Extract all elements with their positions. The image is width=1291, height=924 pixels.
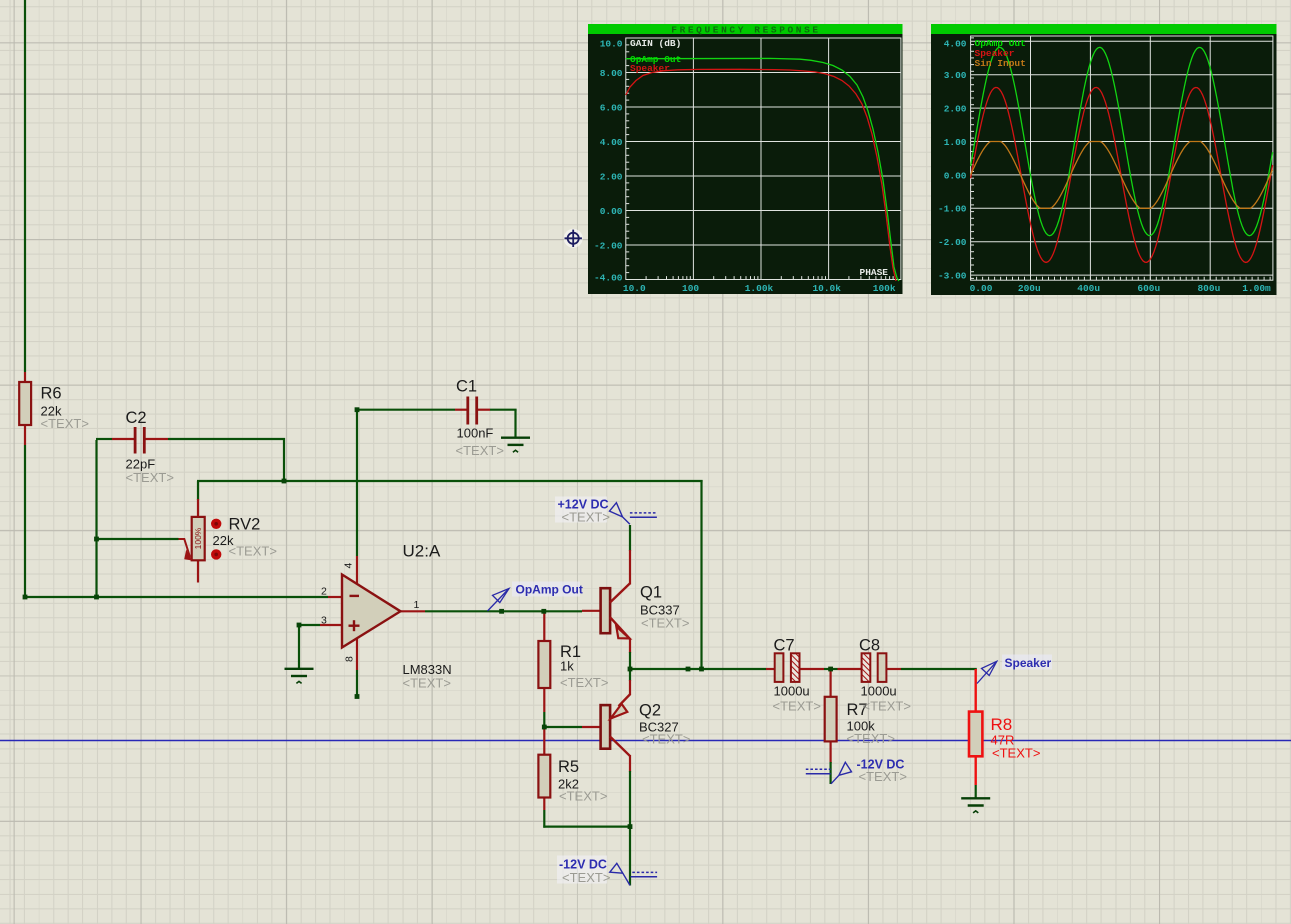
svg-text:<TEXT>: <TEXT> [229,544,277,559]
svg-text:400u: 400u [1077,283,1100,294]
svg-text:-2.00: -2.00 [938,237,967,248]
svg-text:C1: C1 [456,378,477,396]
svg-text:<TEXT>: <TEXT> [641,616,689,631]
svg-text:Speaker: Speaker [630,63,670,74]
wire C2 right lead green [168,438,285,440]
svg-text:2.00: 2.00 [944,104,967,115]
wire C2 right vertical down to feedback net [283,438,285,482]
RV2 top pin dot [211,519,221,529]
wire feedback vertical to output node [700,480,702,670]
wire op-amp pin 8 lower [356,670,358,697]
wire op-amp pin 3 net [298,624,320,626]
svg-text:<TEXT>: <TEXT> [562,870,610,885]
svg-text:1.00k: 1.00k [745,283,774,294]
svg-text:U2:A: U2:A [403,542,441,561]
svg-text:200u: 200u [1018,283,1041,294]
capacitor C7 (electrolytic) [775,653,800,682]
svg-text:8.00: 8.00 [600,68,623,79]
svg-text:RV2: RV2 [229,516,261,534]
svg-text:8: 8 [344,656,356,662]
svg-text:R5: R5 [558,758,579,776]
svg-text:100nF: 100nF [457,426,494,441]
svg-text:<TEXT>: <TEXT> [41,416,89,431]
svg-text:1: 1 [414,599,420,611]
pin op-amp pin 2 stub [328,596,342,598]
capacitor C2 plates [135,427,144,454]
svg-text:6.00: 6.00 [600,102,623,113]
svg-text:R6: R6 [41,385,62,403]
OpAmp Out output terminal [488,582,581,612]
frequency response red curve Speaker [626,69,896,281]
svg-text:3.00: 3.00 [944,70,967,81]
svg-text:<TEXT>: <TEXT> [456,443,504,458]
pin Q2 emitter vertical [629,680,631,695]
svg-text:<TEXT>: <TEXT> [562,510,610,525]
frequency response green curve OpAmp Out [626,58,899,281]
wire +12V terminal to Q1 collector [629,525,631,551]
wire C1 node down to op-amp pin 4 [356,410,358,556]
svg-text:<TEXT>: <TEXT> [859,769,907,784]
svg-text:<TEXT>: <TEXT> [403,676,451,691]
wire C7 to middle node [824,668,832,670]
pin RV2 top lead [197,499,199,518]
wire Q1 emitter to output node [629,652,631,670]
svg-text:OpAmp Out: OpAmp Out [516,583,583,597]
pin op-amp output pin 1 [401,610,426,612]
ground at op-amp pin 3 [285,669,314,684]
pin C8 right lead [886,668,901,670]
node junction pin3/ground [297,623,302,628]
capacitor C1 plates [468,397,477,425]
svg-text:Speaker: Speaker [1005,656,1052,670]
svg-text:4.00: 4.00 [944,38,967,49]
ground at R8 [961,798,990,813]
op-amp U2:A triangle [342,575,401,648]
svg-text:1.00: 1.00 [944,137,967,148]
pin C7 left lead [766,668,775,670]
resistor R6 [19,382,31,425]
pin C8 left lead [838,668,863,670]
svg-text:GAIN (dB): GAIN (dB) [630,38,681,49]
pin op-amp pin 4 [356,556,358,586]
pin Q2 collector vertical [629,755,631,772]
svg-text:2: 2 [321,586,327,598]
node junction output segment [686,667,691,672]
-12V DC power terminal (at R7) [806,762,852,784]
ground at C1 [501,438,530,453]
pin op-amp pin 3 stub [320,624,342,626]
wire wiper horizontal to RV2 [96,538,179,540]
-12V DC power terminal (bottom) [557,856,657,886]
svg-text:-1.00: -1.00 [938,204,967,215]
svg-text:0.00: 0.00 [600,206,623,217]
pin R6 bottom lead [24,425,26,445]
transient plot axis ticks [971,38,1271,280]
transient plot grid [971,36,1273,280]
wire R8 bottom to ground [975,785,977,798]
pin R7 bottom lead [829,741,831,763]
pin C2 right lead [146,438,169,440]
frequency plot axis ticks [626,38,893,280]
pin C1 left lead [455,409,467,411]
frequency plot grid [626,38,901,280]
svg-text:FREQUENCY RESPONSE: FREQUENCY RESPONSE [671,25,820,36]
svg-text:800u: 800u [1197,283,1220,294]
svg-text:-3.00: -3.00 [938,271,967,282]
svg-text:1k: 1k [560,659,574,674]
wire C1 right lead green [490,409,517,411]
pin R7 top lead [829,669,831,697]
svg-text:<TEXT>: <TEXT> [773,699,821,714]
pin R8 bottom lead (selected) [975,756,977,786]
transient orange trace Sin Input [971,142,1273,209]
svg-text:<TEXT>: <TEXT> [642,732,690,747]
svg-text:-2.00: -2.00 [594,240,623,251]
pin R6 top lead [24,372,26,382]
pin op-amp pin 8 [356,636,358,670]
svg-text:C2: C2 [126,409,147,427]
svg-text:<TEXT>: <TEXT> [126,470,174,485]
wire negative rail down to -12V terminal [629,827,631,886]
wire R5 bottom corner [543,810,545,828]
svg-text:10.0: 10.0 [600,38,623,49]
wire middle node to C8 [830,668,838,670]
wire RV2 top corner [197,481,199,500]
wire pin 3 to ground [298,625,300,669]
RV2 bottom pin dot [211,549,221,559]
potentiometer RV2 [179,517,205,561]
svg-text:C8: C8 [859,637,880,655]
transistor Q2 BC327 [601,694,631,756]
wire output node to C7 [630,668,766,670]
wire C8 to speaker node [901,668,977,670]
wire feedback net horizontal [197,480,703,482]
transient analysis graph panel [931,24,1277,295]
node junction C7/C8/R7 [828,667,833,672]
pin C7 right lead [799,668,824,670]
wire input net vertical from top to R6 [24,0,26,372]
pin RV2 bottom lead [197,560,199,583]
svg-text:R8: R8 [991,715,1013,734]
pin R8 top lead (selected) [975,669,977,713]
node junction input/inverting [23,595,28,600]
svg-text:100: 100 [682,283,699,294]
svg-text:Sin Input: Sin Input [975,58,1026,69]
resistor R7 [825,697,837,742]
svg-text:10.0: 10.0 [623,283,646,294]
svg-text:2.00: 2.00 [600,171,623,182]
resistor R8 (selected) [969,712,982,757]
svg-text:<TEXT>: <TEXT> [863,699,911,714]
node junction wiper/C2 [94,537,99,542]
node junction OpAmp Out terminal [499,609,504,614]
svg-text:-4.00: -4.00 [594,273,623,284]
pin C2 left lead [112,438,134,440]
transient plot x-axis labels [970,283,1271,294]
node junction R1/output [541,609,546,614]
wire C1 left lead green [357,409,455,411]
editor cursor crosshair [564,229,583,248]
svg-text:0.00: 0.00 [970,283,993,294]
wire R6 bottom to inverting input net [24,445,26,598]
svg-text:<TEXT>: <TEXT> [559,789,607,804]
+12V DC power terminal [555,497,657,525]
frequency plot x-axis labels [623,283,896,294]
svg-text:100k: 100k [873,283,896,294]
wire Q2 collector to negative rail [629,771,631,828]
wire C1 right down to ground [514,410,516,438]
svg-text:Q2: Q2 [639,702,661,720]
pin R5 bottom lead [543,798,545,811]
resistor R5 [538,755,550,798]
pin R1 bottom lead [543,688,545,712]
svg-text:Q1: Q1 [640,584,662,602]
wire C2 left / wiper vertical [95,440,97,598]
pin R5 top lead [543,727,545,755]
svg-text:C7: C7 [774,637,795,655]
wire op-amp output to Q1 base [425,610,582,612]
node junction feedback/output [699,667,704,672]
wire inverting input net horizontal [24,596,328,598]
svg-text:1000u: 1000u [774,684,810,699]
svg-text:100%: 100% [193,527,203,549]
wire R1 bottom to Q2 base node [543,712,545,728]
wire negative rail horizontal [543,825,631,827]
node junction C1/pin4 [355,407,360,412]
wire Q2 base node horizontal [543,726,582,728]
transient red trace Speaker [971,87,1273,262]
sheet border blue line [0,740,1291,742]
wire R7 bottom to -12V terminal [829,762,831,784]
node junction negative rail [628,824,633,829]
transistor Q1 BC337 [601,583,631,639]
wire output node to Q2 emitter [629,669,631,681]
svg-text:<TEXT>: <TEXT> [560,675,608,690]
node junction inverting net [94,595,99,600]
node junction Q2 base [542,725,547,730]
frequency plot y-axis labels [594,38,623,283]
svg-text:0.00: 0.00 [944,170,967,181]
Speaker output terminal [977,655,1052,684]
capacitor C8 (electrolytic) [862,653,887,682]
node end op-amp pin 8 [355,694,360,699]
pin C1 right lead [478,409,491,411]
frequency response graph panel [588,24,903,294]
pin R1 top lead [543,611,545,641]
pin Q1 collector vertical [629,550,631,585]
svg-text:4: 4 [343,563,355,569]
svg-text:<TEXT>: <TEXT> [992,746,1040,761]
node junction C2/feedback [282,479,287,484]
svg-text:3: 3 [321,615,327,627]
pin Q2 base lead [582,726,601,728]
svg-text:10.0k: 10.0k [812,283,841,294]
transient green trace OpAmp Out [971,47,1273,235]
svg-text:600u: 600u [1137,283,1160,294]
resistor R1 [538,641,550,688]
svg-text:4.00: 4.00 [600,137,623,148]
pin Q1 base lead [582,610,601,612]
op-amp pin numbers [321,563,420,663]
svg-text:<TEXT>: <TEXT> [847,731,895,746]
svg-text:1000u: 1000u [861,684,897,699]
wire C2 left lead green [96,438,112,440]
node junction output emitters [628,667,633,672]
svg-text:1.00m: 1.00m [1242,283,1271,294]
svg-text:PHASE: PHASE [860,267,889,278]
pin Q1 emitter vertical [629,638,631,653]
transient plot y-axis labels [938,38,967,281]
